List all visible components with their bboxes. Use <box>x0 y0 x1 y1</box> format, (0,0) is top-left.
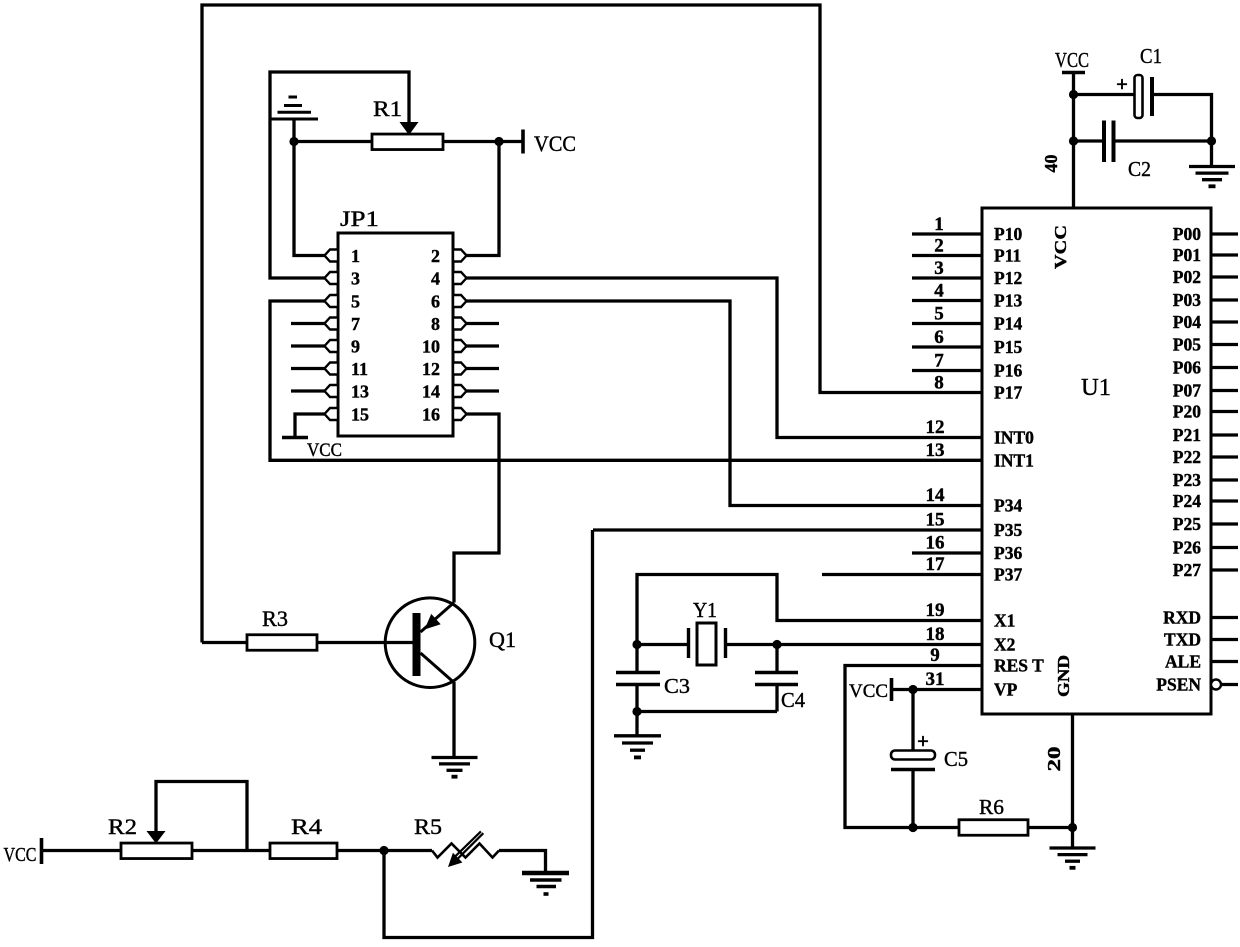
wire stub U1 P22 <box>1211 455 1238 458</box>
node junction: GND / R6 / ground <box>1068 823 1077 832</box>
wire stub U1 P01 <box>1211 253 1238 256</box>
JP1 right pin 10 <box>453 340 467 352</box>
JP1 right pin 2 <box>453 250 467 262</box>
capacitor C3 bottom plate <box>616 683 660 687</box>
rheostat R5 arrow shaft <box>457 833 483 859</box>
JP1 right pin 4 <box>453 272 467 284</box>
svg-text:R5: R5 <box>414 814 442 839</box>
svg-text:Y1: Y1 <box>693 598 717 622</box>
wire: R2 wiper loop to right terminal <box>156 782 247 851</box>
wire: node down, across bottom, up to P35 <box>384 530 593 938</box>
svg-text:VCC: VCC <box>849 681 888 702</box>
svg-text:INT1: INT1 <box>994 450 1034 470</box>
svg-text:P36: P36 <box>994 543 1022 563</box>
svg-text:11: 11 <box>351 359 368 379</box>
wire stub U1 P04 <box>1211 320 1238 323</box>
capacitor C2 left plate <box>1102 121 1106 163</box>
svg-text:R3: R3 <box>262 606 288 631</box>
wire: R1 wiper loop from JP1 pin3 up and over to wiper arrow <box>270 119 325 278</box>
svg-text:20: 20 <box>1044 747 1064 772</box>
svg-text:P22: P22 <box>1173 447 1201 467</box>
JP1 right pin 12 <box>453 363 467 375</box>
wire: rail down to ground <box>1210 141 1213 166</box>
svg-text:P26: P26 <box>1173 538 1201 558</box>
JP1 right pin 6 <box>453 295 467 307</box>
svg-text:VCC: VCC <box>307 440 342 461</box>
transistor Q1 collector diagonal (bottom) <box>421 653 455 683</box>
svg-text:P24: P24 <box>1173 491 1201 511</box>
wire stub U1 P26 <box>1211 546 1238 549</box>
transistor Q1 emitter arrow <box>425 614 441 630</box>
wire: JP1 pin2 to VCC rail riser <box>467 142 500 256</box>
wire stub U1 P06 <box>1211 366 1238 369</box>
wire: U1 P37 <box>822 573 982 576</box>
crystal Y1 left plate <box>687 628 690 658</box>
svg-text:16: 16 <box>422 405 440 425</box>
JP1 left pin 13 <box>325 385 339 397</box>
svg-text:VCC: VCC <box>534 131 576 156</box>
svg-text:P16: P16 <box>994 361 1022 381</box>
svg-text:C2: C2 <box>1128 157 1151 181</box>
svg-text:P00: P00 <box>1173 224 1201 244</box>
svg-text:U1: U1 <box>1081 375 1111 401</box>
node junction: R1 left terminal / ground stem <box>289 137 298 146</box>
wire: U1 P35 to bottom-left net <box>593 528 982 531</box>
capacitor C5 negative plate <box>891 768 935 772</box>
svg-text:R1: R1 <box>373 96 402 121</box>
wire stub U1 pin 5 <box>912 322 982 325</box>
crystal Y1 body <box>697 623 716 665</box>
wire: R1 left terminal <box>294 140 372 143</box>
wire: R1 right terminal to VCC <box>443 140 523 143</box>
wire: U1 X1 over to crystal left node <box>637 575 982 645</box>
JP1 left pin 1 <box>325 250 339 262</box>
ground symbol (below R5) <box>522 871 569 875</box>
wire: R2 to R4 <box>192 849 270 852</box>
node junction: C5 / R6 rail <box>908 823 917 832</box>
wire: VCC down into U1 top <box>1072 73 1075 209</box>
svg-text:PSEN: PSEN <box>1156 675 1201 695</box>
svg-text:RXD: RXD <box>1163 608 1201 628</box>
wire: C4 top stem <box>775 645 778 672</box>
wire: C3 top stem <box>635 645 638 672</box>
capacitor C4 bottom plate <box>755 683 798 687</box>
svg-text:VCC: VCC <box>1055 48 1089 72</box>
svg-text:VCC: VCC <box>4 844 37 866</box>
svg-text:P25: P25 <box>1173 514 1201 534</box>
wire stub U1 P03 <box>1211 298 1238 301</box>
svg-text:31: 31 <box>926 669 945 690</box>
wire stub U1 P27 <box>1211 568 1238 571</box>
svg-text:P02: P02 <box>1173 267 1201 287</box>
svg-text:40: 40 <box>1041 155 1061 173</box>
JP1 left pin 3 <box>325 272 339 284</box>
capacitor C2 right plate <box>1112 121 1116 163</box>
wire: Q1 collector down to ground <box>452 682 455 756</box>
wire: JP1 pin16 to Q1 emitter <box>454 414 499 603</box>
capacitor C3 top plate <box>616 671 660 675</box>
wire: U1 RES T to pull rail <box>845 666 982 828</box>
svg-text:P21: P21 <box>1173 425 1201 445</box>
svg-text:1: 1 <box>351 246 360 266</box>
ground symbol (below C3) <box>614 734 661 737</box>
wire: C4 bottom stem <box>775 686 778 712</box>
JP1 left pin 7 <box>325 318 339 330</box>
svg-text:P14: P14 <box>994 314 1022 334</box>
wire stub U1 ALE <box>1211 660 1238 663</box>
power VCC terminal bar (R1) <box>521 130 525 154</box>
svg-text:P35: P35 <box>994 520 1022 540</box>
node junction: X2 / C4 <box>772 640 781 649</box>
wire stub U1 pin 7 <box>912 369 982 372</box>
svg-text:16: 16 <box>926 533 945 554</box>
svg-text:C5: C5 <box>944 747 968 771</box>
wire stub U1 P05 <box>1211 343 1238 346</box>
JP1 left pin 11 <box>325 363 339 375</box>
svg-text:P27: P27 <box>1173 560 1201 580</box>
capacitor C5 positive plate <box>891 751 935 760</box>
wire: outer loop from R3 node up, across top, down to U1 pin8 P17 <box>202 5 982 643</box>
wire: to C1 positive plate <box>1074 93 1135 96</box>
transistor Q1 base bar <box>413 613 421 676</box>
power VCC terminal (U1 pin 40) <box>1062 71 1085 75</box>
svg-text:VCC: VCC <box>1051 225 1070 269</box>
wire: C3 bottom stem <box>635 686 638 712</box>
transistor Q1 circle <box>385 598 475 688</box>
wire stub JP1 pin10 <box>467 344 500 347</box>
svg-text:15: 15 <box>351 405 369 425</box>
wire stub U1 P23 <box>1211 478 1238 481</box>
wire: crystal left lead <box>637 643 688 646</box>
wire stub U1 pin 1 <box>912 232 982 235</box>
wire stub U1 P36 <box>912 551 982 554</box>
IC U1 box <box>982 208 1211 714</box>
ground symbol (top-left, plates widen downward) <box>289 96 298 99</box>
wire stub U1 pin 3 <box>912 276 982 279</box>
svg-text:5: 5 <box>351 292 360 312</box>
svg-text:P15: P15 <box>994 337 1022 357</box>
wire stub U1 P00 <box>1211 232 1238 235</box>
wire stub JP1 pin11 <box>291 367 325 370</box>
wire stub U1 pin 6 <box>912 345 982 348</box>
wire: VCC bar to U1 VP <box>893 688 982 691</box>
wire: U1 GND pin 20 down <box>1071 714 1074 828</box>
svg-text:2: 2 <box>934 236 944 257</box>
svg-text:10: 10 <box>422 337 440 357</box>
wire stub JP1 pin12 <box>467 367 500 370</box>
wire: crystal right lead / X2 net <box>727 643 983 646</box>
wire: JP1 pin6 to U1 P34 (net P34) <box>467 301 983 506</box>
svg-text:4: 4 <box>431 269 440 289</box>
wire stub JP1 pin9 <box>291 344 325 347</box>
potentiometer R2 wiper arrow <box>147 831 166 844</box>
svg-text:7: 7 <box>351 314 360 334</box>
wire: stem to ground <box>1071 828 1074 848</box>
node junction: C1/C2/ground rail <box>1207 136 1216 145</box>
potentiometer R1 body <box>372 134 443 150</box>
wire: to C2 left plate <box>1074 139 1103 142</box>
power VCC terminal bar (VP) <box>890 678 894 701</box>
svg-text:P12: P12 <box>994 268 1022 288</box>
svg-text:14: 14 <box>926 485 946 506</box>
svg-text:9: 9 <box>351 337 360 357</box>
node junction: C3 bottom / ground <box>632 707 641 716</box>
svg-text:P06: P06 <box>1173 358 1201 378</box>
node junction: VCC / C2 <box>1069 136 1078 145</box>
svg-text:RES T: RES T <box>994 656 1044 676</box>
svg-text:12: 12 <box>422 359 440 379</box>
wire: crystal bottom rail <box>637 710 777 713</box>
svg-text:P01: P01 <box>1173 245 1201 265</box>
svg-text:Q1: Q1 <box>489 627 516 652</box>
svg-text:18: 18 <box>926 624 945 645</box>
wire stub JP1 pin14 <box>467 389 500 392</box>
svg-text:8: 8 <box>431 314 440 334</box>
node junction: VP / C5 <box>908 685 917 694</box>
svg-text:X1: X1 <box>994 611 1015 631</box>
ground symbol (below Q1) <box>432 756 478 759</box>
wire: C5 top stem <box>911 690 914 751</box>
wire stub JP1 pin8 <box>467 322 500 325</box>
svg-text:12: 12 <box>926 417 945 438</box>
svg-text:P13: P13 <box>994 291 1022 311</box>
svg-text:R4: R4 <box>291 814 322 839</box>
transistor Q1 emitter diagonal (top) <box>421 603 455 633</box>
wire stub JP1 pin13 <box>291 389 325 392</box>
svg-text:+: + <box>1116 72 1128 96</box>
JP1 right pin 14 <box>453 385 467 397</box>
power VCC terminal bar (JP1 pin15) <box>282 436 308 440</box>
capacitor C1 positive plate <box>1135 75 1143 118</box>
svg-text:INT0: INT0 <box>994 428 1034 448</box>
svg-text:15: 15 <box>926 510 945 531</box>
power VCC terminal bar (R2) <box>40 838 44 864</box>
svg-text:17: 17 <box>926 554 946 575</box>
wire stub U1 P07 <box>1211 389 1238 392</box>
wire: C2 to right rail <box>1116 139 1212 142</box>
wire stub U1 P20 <box>1211 410 1238 413</box>
wire stub U1 PSEN <box>1221 683 1238 686</box>
wire: C5 bottom stem <box>911 770 914 828</box>
rheostat R5 arrowhead <box>448 853 462 867</box>
svg-text:P17: P17 <box>994 383 1022 403</box>
svg-text:VP: VP <box>994 680 1018 700</box>
resistor R4 body <box>270 843 337 859</box>
ground symbol (below U1 GND) <box>1050 846 1096 849</box>
svg-text:P34: P34 <box>994 496 1022 516</box>
svg-text:GND: GND <box>1054 655 1073 697</box>
svg-text:3: 3 <box>351 269 360 289</box>
svg-text:JP1: JP1 <box>340 206 379 231</box>
JP1 left pin 15 <box>325 408 339 420</box>
wire: C1 to right rail <box>1154 95 1212 142</box>
wire stub U1 pin 2 <box>912 254 982 257</box>
svg-text:P07: P07 <box>1173 381 1201 401</box>
svg-text:1: 1 <box>934 214 944 235</box>
svg-text:3: 3 <box>934 258 944 279</box>
svg-text:R6: R6 <box>979 795 1004 819</box>
wire: R6 to GND node <box>1028 826 1073 829</box>
potentiometer R1 wiper arrow <box>400 122 419 135</box>
JP1 left pin 5 <box>325 295 339 307</box>
svg-text:2: 2 <box>431 246 440 266</box>
wire stub U1 RXD <box>1211 616 1238 619</box>
JP1 right pin 16 <box>453 408 467 420</box>
wire: R3 to Q1 base <box>317 641 413 644</box>
capacitor C4 top plate <box>755 671 798 675</box>
svg-text:C3: C3 <box>664 674 690 698</box>
svg-text:C4: C4 <box>781 688 805 712</box>
svg-text:19: 19 <box>926 600 945 621</box>
svg-text:5: 5 <box>934 304 944 325</box>
wire stub U1 P24 <box>1211 499 1238 502</box>
node junction: R1 right / JP1 pin2 riser <box>494 137 503 146</box>
svg-text:8: 8 <box>934 373 944 394</box>
svg-text:TXD: TXD <box>1164 630 1201 650</box>
wire stub U1 TXD <box>1211 638 1238 641</box>
capacitor C1 negative plate <box>1150 77 1154 116</box>
resistor R3 body <box>247 635 317 651</box>
wire stub U1 P02 <box>1211 275 1238 278</box>
wire: R3 left terminal <box>202 641 247 644</box>
ground symbol (top right) <box>1189 165 1235 168</box>
wire: VCC to R2 <box>42 849 122 852</box>
potentiometer R2 body <box>121 843 192 859</box>
wire: R5 to ground <box>499 851 546 872</box>
svg-text:7: 7 <box>934 351 944 372</box>
svg-text:P20: P20 <box>1173 402 1201 422</box>
wire: node to R5 <box>384 849 432 852</box>
svg-text:P03: P03 <box>1173 290 1201 310</box>
svg-text:6: 6 <box>934 327 944 348</box>
svg-text:R2: R2 <box>108 814 137 839</box>
wire: ground stem down to node and JP1 pin1 <box>294 119 325 256</box>
node junction: crystal left / C3 <box>632 640 641 649</box>
resistor R6 body <box>959 820 1028 836</box>
rheostat R5 zigzag <box>432 844 499 858</box>
wire: wiper vertical drop <box>270 72 409 123</box>
svg-text:13: 13 <box>351 382 369 402</box>
wire stub JP1 pin7 <box>291 322 325 325</box>
wire stub U1 P21 <box>1211 433 1238 436</box>
svg-text:9: 9 <box>930 645 940 666</box>
svg-text:P23: P23 <box>1173 470 1201 490</box>
JP1 left pin 9 <box>325 340 339 352</box>
svg-text:ALE: ALE <box>1165 652 1201 672</box>
svg-text:13: 13 <box>926 440 945 461</box>
svg-text:P37: P37 <box>994 565 1022 585</box>
svg-text:6: 6 <box>431 292 440 312</box>
U1 PSEN inversion bubble <box>1211 680 1221 690</box>
node junction: VCC / C1 <box>1069 90 1078 99</box>
svg-text:X2: X2 <box>994 635 1015 655</box>
wire: JP1 pin4 to U1 INT0 (net INT0) <box>467 278 983 438</box>
wire: stem to ground <box>635 712 638 736</box>
JP1 right pin 8 <box>453 318 467 330</box>
connector JP1 box <box>338 233 453 436</box>
wire stub U1 P25 <box>1211 522 1238 525</box>
wire: R4 to node <box>337 849 384 852</box>
svg-text:P04: P04 <box>1173 312 1201 332</box>
svg-text:P11: P11 <box>994 246 1021 266</box>
svg-text:14: 14 <box>422 382 440 402</box>
svg-text:C1: C1 <box>1140 44 1162 68</box>
node junction: R4 / R5 / P35 net <box>379 846 388 855</box>
crystal Y1 right plate <box>724 628 727 658</box>
svg-text:4: 4 <box>934 281 944 302</box>
svg-text:P10: P10 <box>994 224 1022 244</box>
svg-text:P05: P05 <box>1173 335 1201 355</box>
wire stub U1 pin 4 <box>912 299 982 302</box>
wire: JP1 pin5 to U1 INT1 (net INT1) <box>270 301 982 460</box>
wire: JP1 pin15 to VCC <box>295 414 325 438</box>
